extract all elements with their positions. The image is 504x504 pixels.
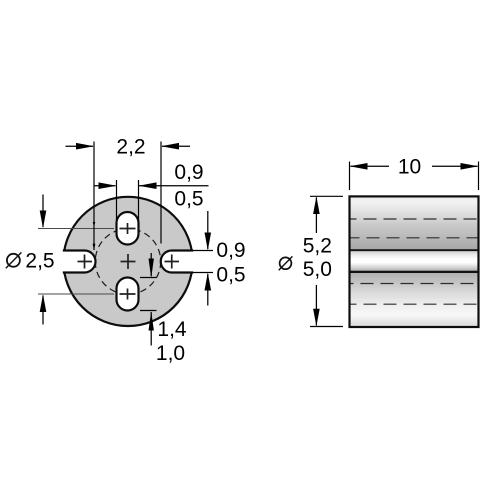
lower arrow: [42, 296, 44, 325]
tiny arrow on ext line (to notch edge): [93, 244, 96, 250]
center cross: [121, 254, 136, 269]
svg-text:0,9: 0,9: [174, 161, 203, 184]
groove edge bottom: [350, 271, 479, 273]
groove edge top: [350, 249, 479, 251]
hidden line 1: [350, 218, 479, 220]
diameter symbol: [279, 256, 293, 270]
right side notch: [161, 251, 198, 273]
pitch circle (dashed): [95, 229, 161, 295]
cylinder middle band: [350, 250, 479, 272]
svg-text:0,5: 0,5: [216, 264, 245, 287]
svg-text:1,0: 1,0: [156, 342, 185, 365]
ext line left: [93, 142, 95, 251]
svg-text:0,9: 0,9: [216, 239, 245, 262]
left side notch: [58, 251, 96, 273]
upper arrow: [313, 197, 320, 215]
dim 2,2 right arrow: [162, 145, 190, 147]
right notch cross: [165, 255, 180, 269]
left arrow: [94, 185, 116, 187]
ext line bottom: [310, 326, 343, 328]
bottom slot cross: [120, 289, 136, 300]
svg-text:10: 10: [398, 156, 421, 179]
ext line left: [349, 162, 351, 191]
svg-text:1,4: 1,4: [157, 318, 187, 341]
svg-text:2,2: 2,2: [116, 135, 145, 158]
ext line bottom (slot edge extended): [140, 310, 157, 312]
ext line bottom (notch edge extended): [193, 272, 213, 274]
upper arrow: [150, 253, 152, 276]
ext line right (slot edge): [138, 180, 140, 220]
dim 2,2 left arrow: [66, 145, 94, 147]
top slot hole: [117, 212, 139, 245]
right arrow: [461, 163, 479, 170]
upper arrow: [207, 211, 209, 249]
hidden line 2: [350, 237, 479, 239]
disk body: [63, 197, 192, 326]
bottom slot hole: [117, 278, 139, 311]
ext line top: [310, 195, 343, 197]
left arrow: [350, 163, 368, 170]
svg-text:5,0: 5,0: [303, 258, 332, 281]
hidden line 3: [350, 283, 479, 285]
lower arrow: [207, 274, 209, 306]
centerline top slot: [38, 228, 114, 230]
ext line left (slot edge): [116, 180, 118, 220]
lower arrow: [313, 309, 320, 327]
ext line right: [478, 162, 480, 191]
cylinder outline: [350, 196, 479, 327]
svg-text:2,5: 2,5: [25, 249, 54, 272]
svg-text:0,5: 0,5: [174, 188, 203, 211]
svg-text:5,2: 5,2: [303, 234, 332, 257]
tiny arrow on ext line (to centerline): [93, 222, 96, 227]
upper arrow: [42, 195, 44, 228]
hidden line 4: [350, 303, 479, 305]
left notch cross: [78, 255, 93, 269]
centerline bottom slot: [38, 293, 114, 295]
diameter symbol: [6, 252, 22, 268]
cylinder bottom section: [350, 272, 479, 327]
top slot cross: [120, 223, 136, 234]
ext line right: [160, 142, 162, 244]
lower arrow: [150, 312, 152, 346]
ext line top (notch edge extended): [193, 250, 213, 252]
cylinder top section: [350, 196, 479, 250]
right arrow with fraction bar: [139, 185, 209, 187]
ext line top (slot edge extended): [140, 277, 157, 279]
